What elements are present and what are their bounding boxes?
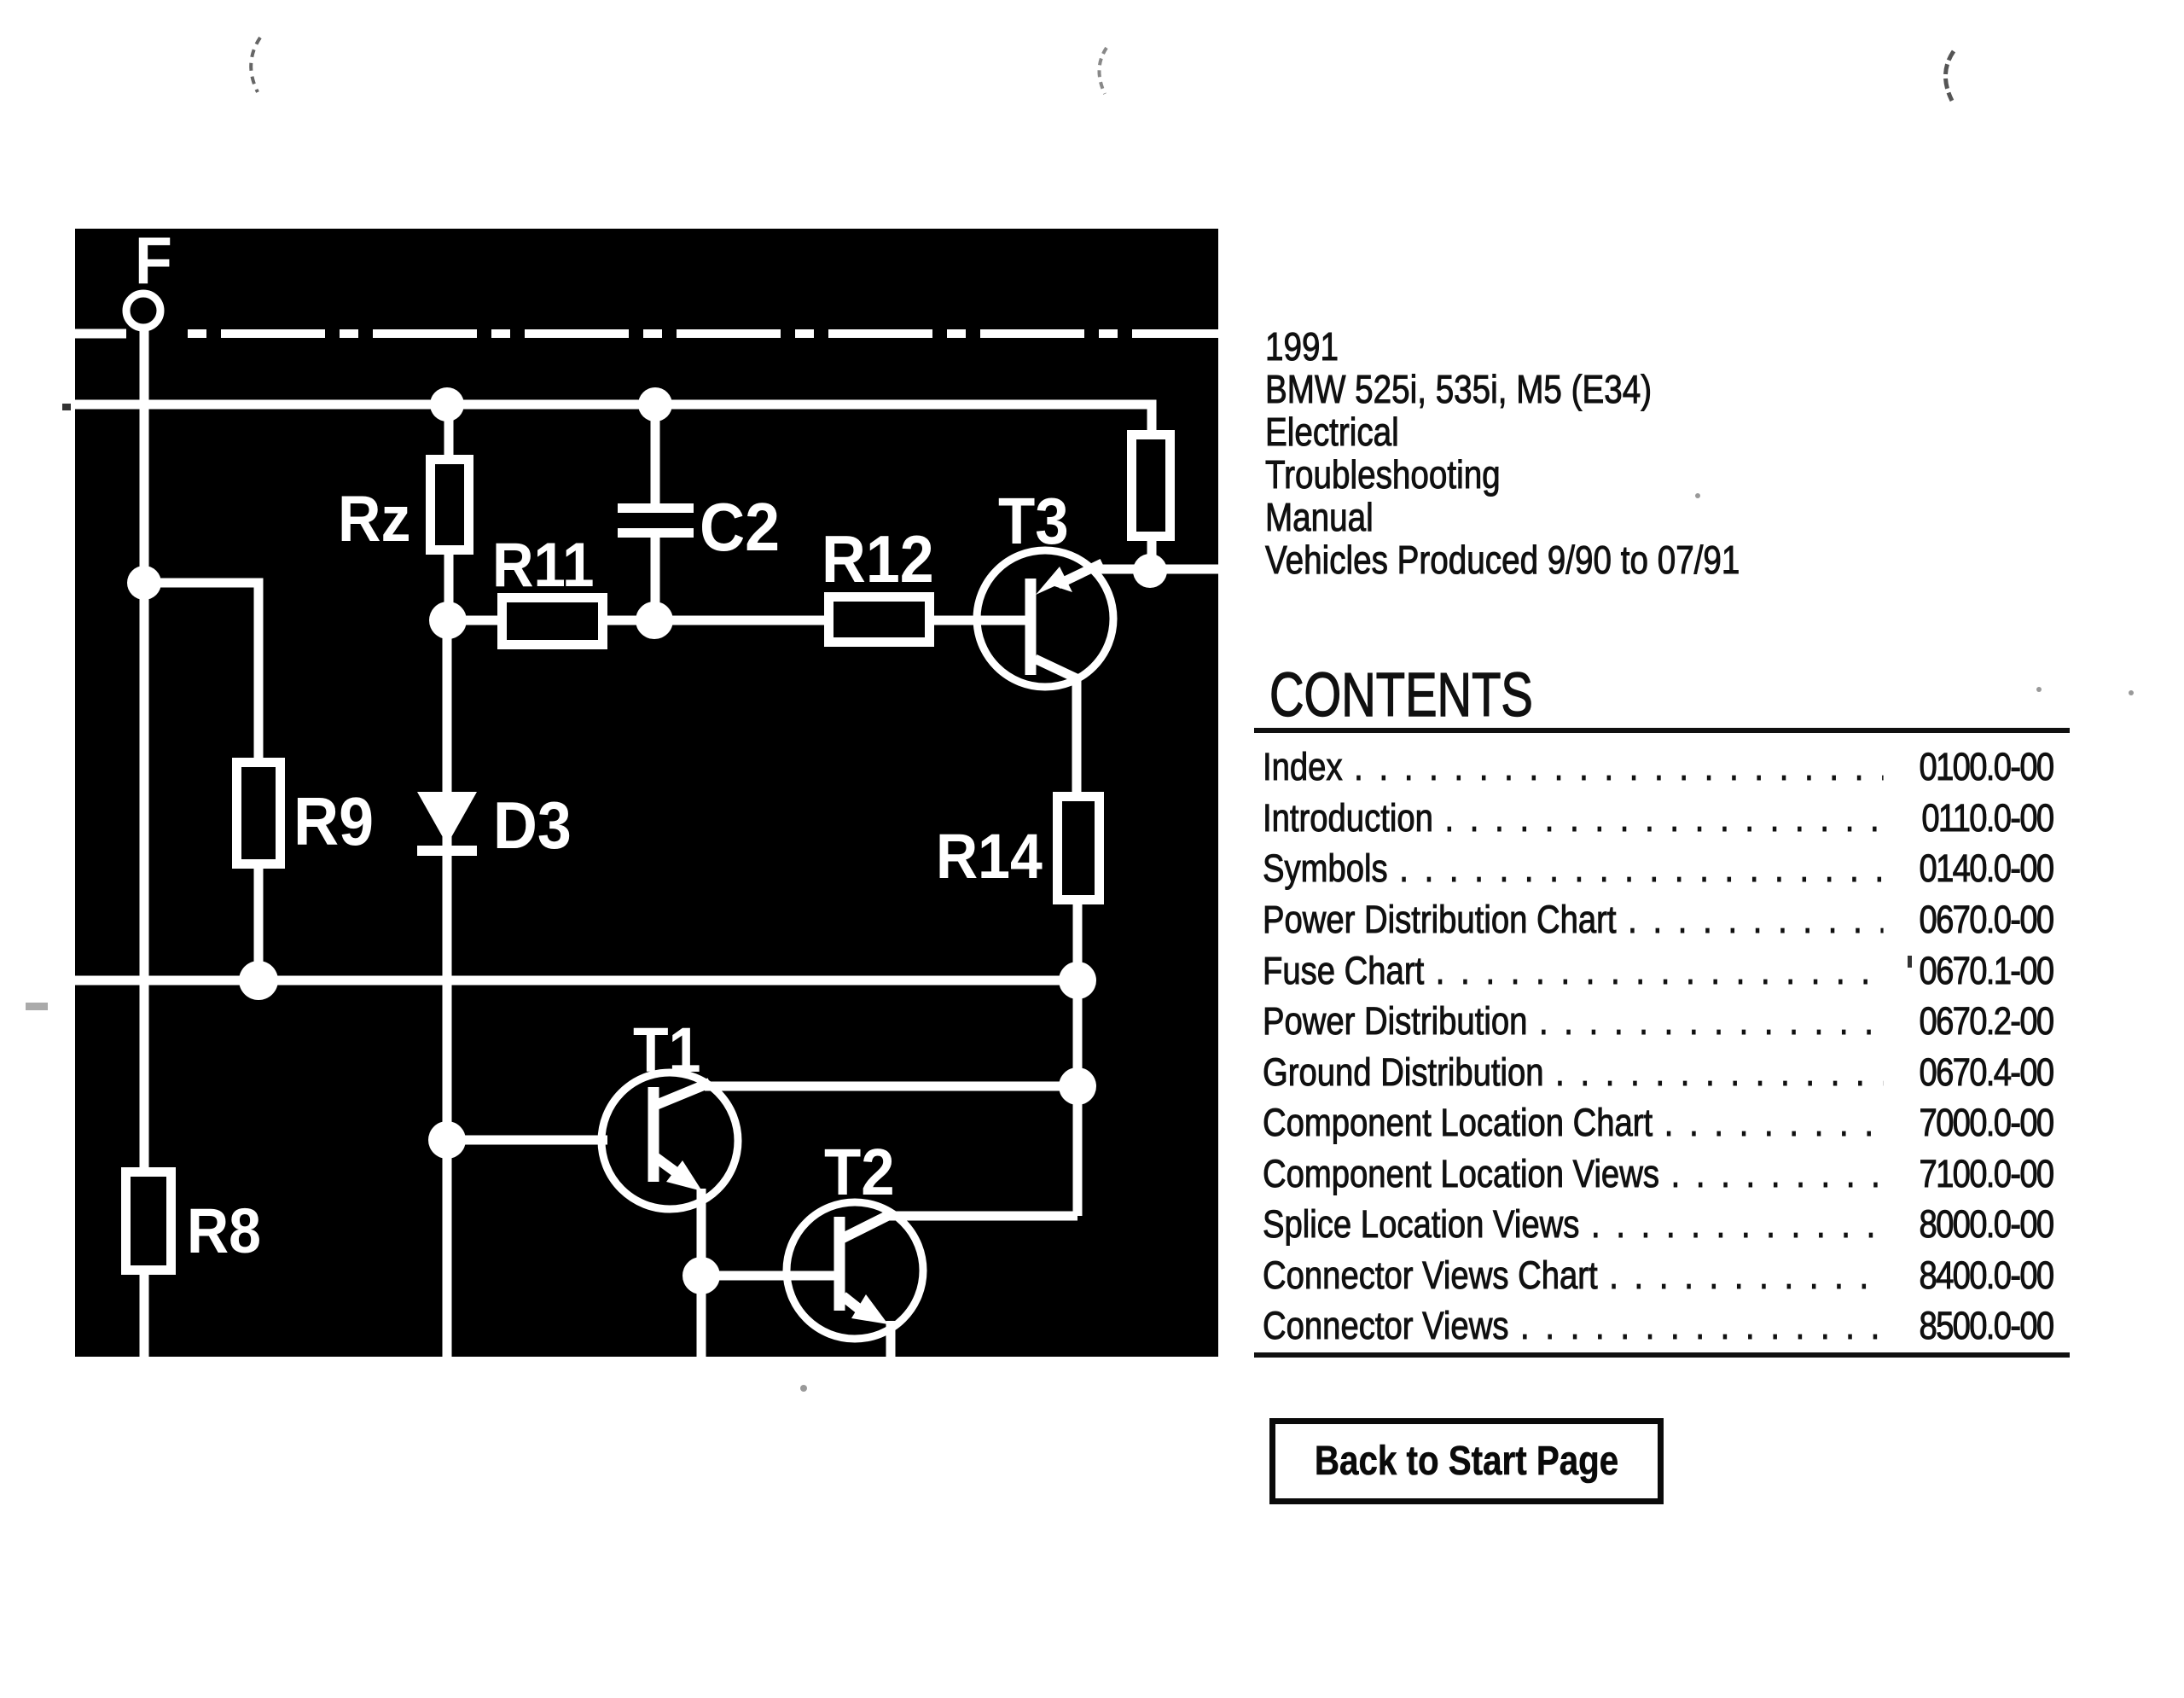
resistor R8: [126, 1172, 171, 1271]
junction: right vertical / T1 collector bus: [1059, 1067, 1096, 1105]
junction: T1 emitter / T2 base: [682, 1257, 720, 1294]
CONTENTS heading: [1269, 660, 1533, 730]
svg-text:T2: T2: [824, 1135, 895, 1208]
transistor T2: [787, 1202, 923, 1339]
svg-text:R11: R11: [492, 530, 594, 599]
resistor R9: [237, 763, 281, 864]
wire: vertical from node F down to R8: [140, 330, 149, 1169]
wire: R9 bottom lead: [254, 867, 264, 981]
stray scan mark: paren arc top-middle: [1099, 48, 1107, 94]
svg-text:C2: C2: [700, 489, 780, 566]
wire: C2 bottom lead: [651, 533, 660, 620]
svg-text:D3: D3: [493, 788, 572, 862]
wire: T3 emitter bus to panel edge: [1092, 565, 1218, 574]
junction: top bus / Rz: [430, 387, 464, 422]
capacitor C2 plates: [618, 503, 694, 513]
schematic panel (black background): [75, 229, 1218, 1357]
junction: C2 bottom / R11-R12: [636, 602, 673, 639]
wire: R12 right lead to T3 base: [932, 616, 1028, 625]
svg-text:T1: T1: [633, 1015, 700, 1085]
junction: Rz bottom / R11: [429, 602, 467, 639]
wire: unlabeled resistor bottom lead: [1147, 539, 1157, 573]
wire: middle bus: [75, 976, 1077, 986]
wire: T2 collector horizontal: [884, 1212, 1077, 1221]
junction: D3 line / T1 base: [428, 1121, 466, 1159]
wire: R11 right lead to R12: [604, 616, 828, 625]
wire: T1 emitter drop: [697, 1189, 706, 1357]
wire: right vertical from middle bus down to T2 level: [1073, 980, 1083, 1216]
stray scan mark: left paren arc top-left: [251, 38, 260, 92]
svg-text:R12: R12: [822, 521, 934, 596]
junction: R14 / middle bus: [1059, 962, 1096, 999]
diode D3: [417, 792, 477, 856]
wire: R14 bottom lead: [1073, 903, 1083, 980]
junction: top bus / C2: [638, 387, 672, 422]
wire: Rz bottom lead: [444, 553, 454, 620]
junction: R9 / middle bus: [239, 961, 278, 1000]
header text block: [1265, 325, 1740, 581]
svg-text:Rz: Rz: [338, 483, 410, 555]
resistor R12: [829, 597, 930, 643]
resistor R11: [502, 598, 603, 645]
resistor R14: [1058, 797, 1100, 900]
transistor T3: [977, 550, 1113, 687]
transistor T1: [601, 1073, 738, 1209]
resistor Rz: [431, 460, 469, 550]
svg-text:R8: R8: [187, 1196, 261, 1266]
wire: T2 base lead: [701, 1271, 836, 1281]
stray specks: [26, 404, 2134, 1392]
T2 emitter arrow: [851, 1294, 888, 1324]
wire: R8 bottom lead to panel bottom: [140, 1271, 149, 1357]
wire: R11 left lead: [465, 616, 501, 625]
wire: T2 emitter drop: [886, 1321, 896, 1357]
T3 emitter arrow: [1036, 567, 1072, 595]
Back to Start Page button: [1269, 1418, 1664, 1504]
wire: C2 top lead: [651, 404, 660, 509]
wire: T3 collector drop to R14: [1072, 677, 1082, 794]
wire: dash-dot bus right of node F: [188, 329, 1218, 338]
wire: top bus: [75, 404, 1152, 432]
junction: T3 emitter bus / unlabeled resistor: [1133, 554, 1167, 588]
svg-text:R9: R9: [293, 783, 374, 860]
resistor unlabeled (top right): [1132, 435, 1170, 537]
junction: left wire branch to R9: [127, 566, 161, 600]
node F terminal circle: [126, 294, 160, 328]
svg-text:F: F: [135, 223, 172, 297]
wire: stub from panel edge to node F terminal: [75, 329, 126, 339]
wire: vertical through D3 down to panel bottom: [443, 620, 452, 1357]
stray scan mark: paren arc top-right: [1945, 51, 1954, 101]
wire: T1 base lead: [447, 1136, 607, 1145]
wire: T1 collector bus: [705, 1082, 1077, 1091]
T1 emitter arrow: [666, 1160, 702, 1191]
svg-text:T3: T3: [998, 484, 1069, 557]
wire: branch from left bus to R9: [144, 583, 258, 759]
wire: Rz top lead: [444, 404, 454, 456]
svg-text:R14: R14: [936, 822, 1043, 892]
